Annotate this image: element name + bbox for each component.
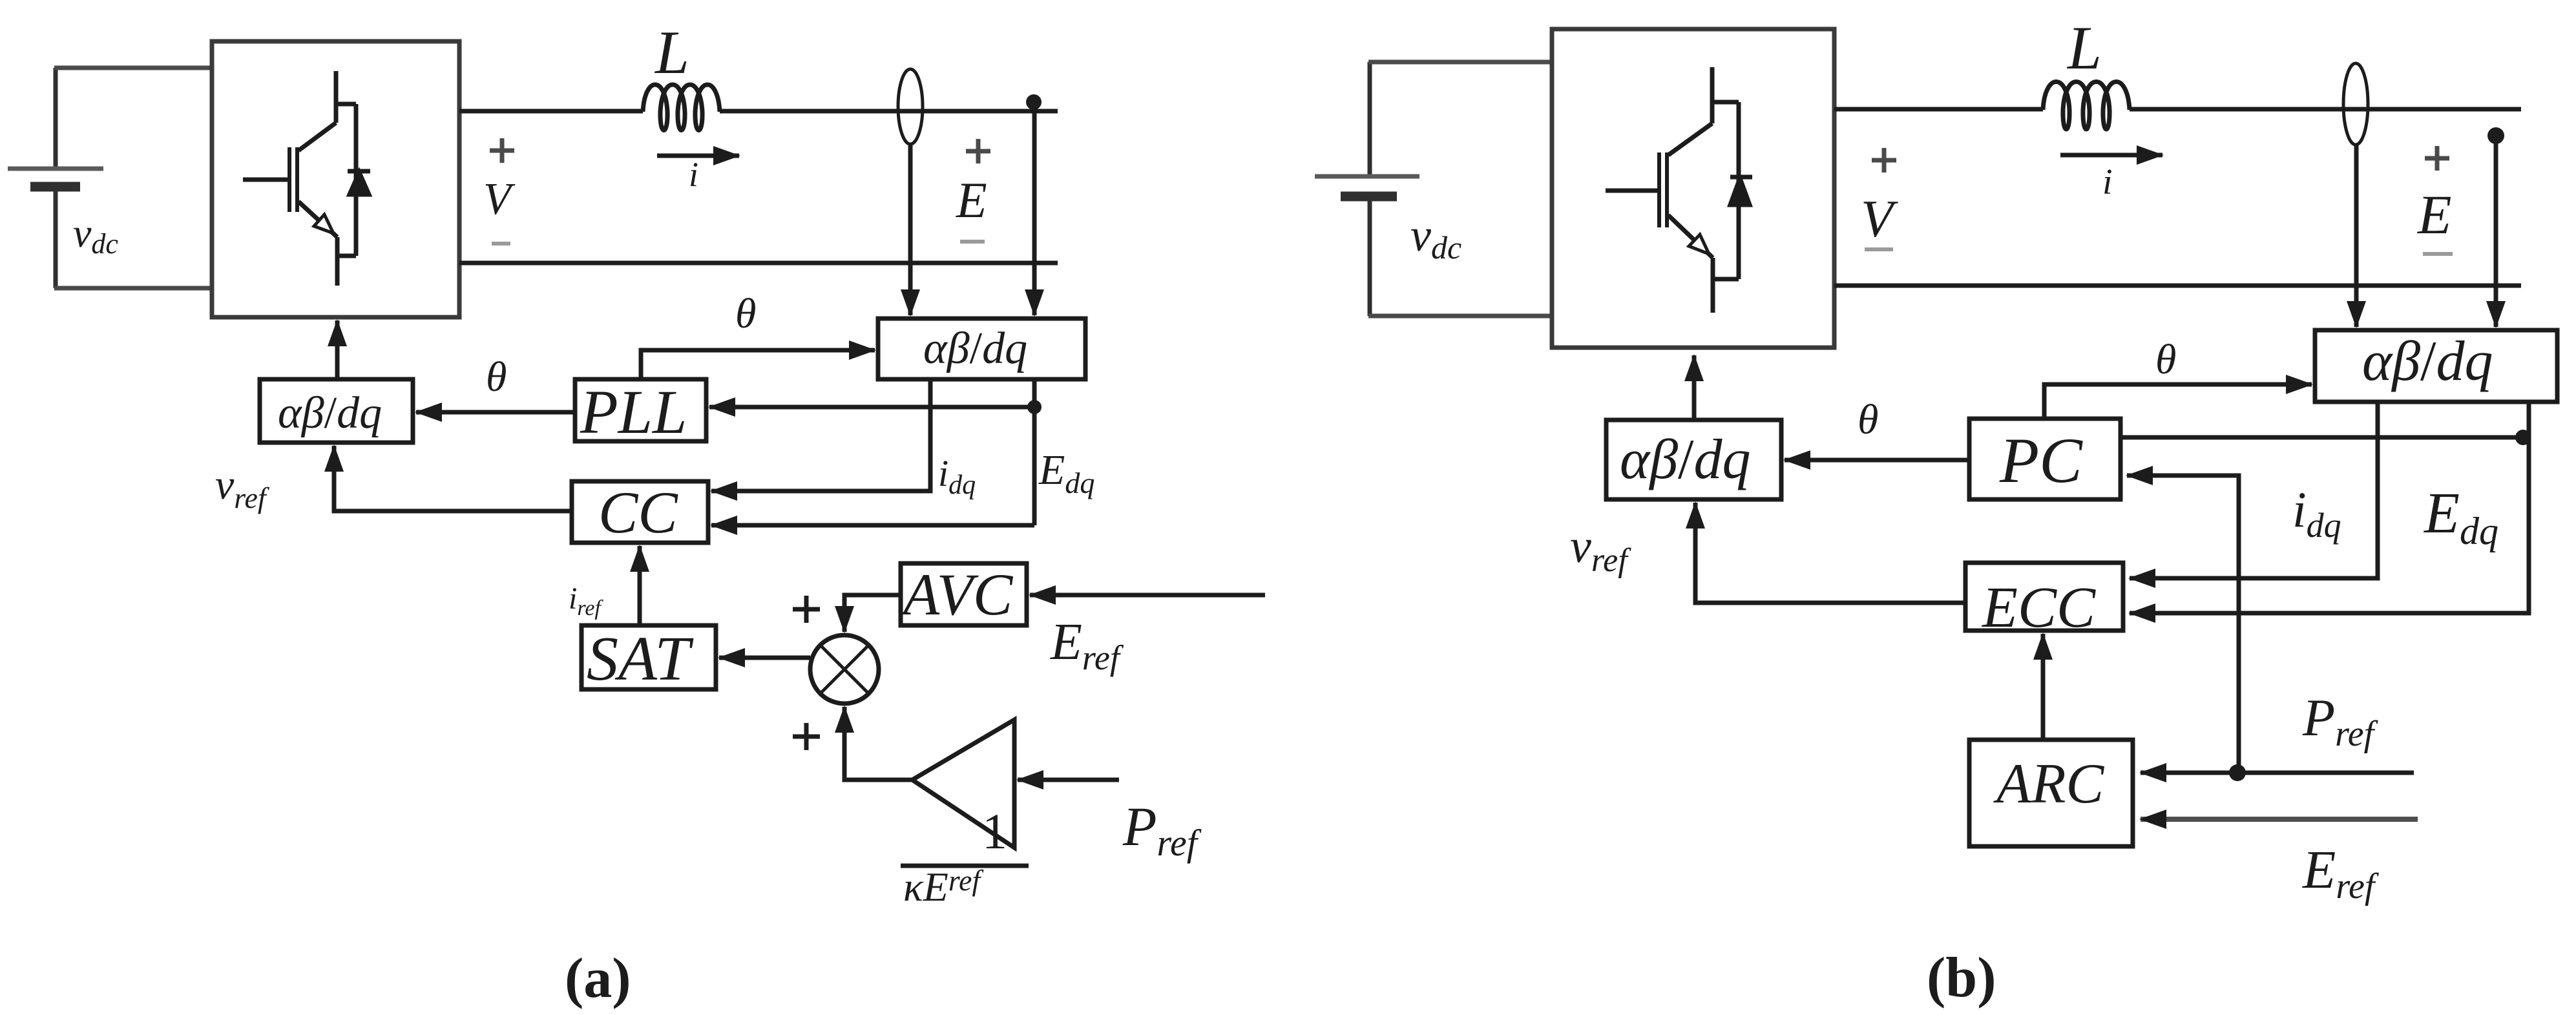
wire ARC to ECC (b) [2041,634,2046,740]
wire Edq vertical (a) [1032,379,1037,525]
wire top mid (a) [720,109,1058,114]
wire mult to SAT (a) [719,656,810,660]
sensor ellipse (b) [2343,63,2368,145]
svg-text:PC: PC [1999,424,2083,496]
block CC (a) [572,481,708,543]
current arrow i (b) [2060,153,2162,158]
block PLL (a) [575,379,706,441]
wire ac bottom (a) [459,261,1058,266]
svg-text:i: i [689,155,698,194]
block PC (b) [1969,419,2120,499]
svg-text:αβ/dq: αβ/dq [278,388,382,438]
svg-text:θ: θ [486,353,507,401]
wire dc top (b) [1368,60,1553,65]
svg-text:E: E [2416,183,2452,246]
wire ac top (a) [459,109,643,114]
block AVC (a) [901,563,1027,625]
svg-text:αβ/dq: αβ/dq [923,324,1027,373]
wire E sense right (b) [2494,136,2498,327]
block abdq right (a) [878,319,1085,379]
svg-text:L: L [654,18,689,87]
svg-text:V: V [483,174,516,224]
multiplier circle (a) [810,635,879,704]
wire abdq to converter (a) [335,320,340,379]
svg-text:αβ/dq: αβ/dq [1620,428,1750,491]
block ECC (b) [1965,563,2123,631]
wire Pref to PC (b) [2127,476,2239,773]
wire AVC out (a) [844,595,901,632]
diode D1 (a) [348,171,370,194]
svg-text:i: i [2102,162,2113,202]
current arrow i (a) [657,154,739,158]
inductor L (b) [2043,82,2130,130]
wire theta to abdq (b) [2044,384,2312,419]
svg-text:θ: θ [1858,396,1878,443]
node dot PLL tap (a) [1027,400,1042,414]
svg-text:ARC: ARC [1993,753,2105,815]
label plus V (b) [1872,148,1896,173]
node dot PC line (b) [2515,430,2531,445]
wire Pref in (b) [2141,771,2414,775]
converter box U2 (b) [1552,29,1834,348]
svg-text:AVC: AVC [899,561,1014,627]
wire vref up (a) [334,446,572,511]
wire idq vertical (b) [2130,402,2378,578]
wire E sense left (b) [2354,145,2359,327]
svg-text:E: E [956,172,987,228]
wire PC to abdq left (b) [1785,458,1969,463]
wire iref (a) [638,546,642,625]
node dot Pref (b) [2229,764,2246,781]
node dot (a) [1026,94,1042,110]
FIGURE_A_END [1315,29,2557,846]
svg-text:L: L [2066,14,2102,82]
wire Edq vertical (b) [2130,402,2529,613]
wire PLL to abdq left (a) [416,410,575,415]
wire Pref in (a) [1018,778,1119,782]
converter box U1 (a) [212,41,459,317]
transistor Q1 IGBT (a) [243,71,356,286]
wire dc top (a) [54,66,213,70]
wire PC out right (b) [2120,435,2529,440]
wire abdq to converter (b) [1692,355,1697,420]
wire vref up (b) [1695,503,1964,603]
wire to PLL (a) [709,405,1034,410]
svg-text:1: 1 [982,803,1007,859]
inductor L (a) [643,85,720,131]
wire theta to abdq (a) [641,350,875,379]
label plus E (b) [2425,146,2449,171]
wire Eref in (b) [2141,817,2418,822]
wire gain to mult (a) [844,707,912,780]
wire dc bottom (a) [54,286,213,291]
svg-text:SAT: SAT [587,624,694,694]
wire Eref in (a) [1030,593,1265,598]
fraction bar (a) [901,864,1029,868]
svg-text:V: V [1861,189,1898,248]
battery Vdc (b) [1315,62,1419,316]
label plus top (a) [793,596,820,623]
wire dc bottom (b) [1368,314,1553,319]
sensor ellipse (a) [898,69,923,144]
svg-text:ECC: ECC [1981,576,2096,640]
label plus bottom (a) [793,723,820,750]
wire ac bottom (b) [1834,284,2521,288]
diode D2 (b) [1730,177,1752,205]
svg-text:αβ/dq: αβ/dq [2362,330,2493,393]
block SAT (a) [581,625,716,689]
wire E sense left (a) [908,144,913,315]
wire Edq to CC (a) [711,523,1034,528]
label plus V (a) [490,138,514,163]
block abdq left (b) [1606,420,1781,499]
wire E sense right (a) [1032,102,1037,315]
label plus E (a) [966,139,990,163]
svg-text:CC: CC [598,479,678,545]
label minus E (a) [960,240,985,244]
wire top mid (b) [2130,107,2521,112]
transistor Q2 IGBT (b) [1606,67,1739,313]
node dot (b) [2487,127,2504,144]
svg-text:(a): (a) [565,947,631,1010]
block abdq left (a) [260,379,413,443]
label minus E (b) [2423,252,2453,256]
wire ac top (b) [1834,107,2043,112]
block abdq right (b) [2315,330,2557,402]
svg-text:θ: θ [2155,336,2176,383]
label minus V (b) [1865,247,1893,251]
svg-text:PLL: PLL [580,377,687,446]
svg-text:θ: θ [735,290,756,337]
label minus V (a) [492,242,510,246]
battery Vdc (a) [8,68,103,288]
gain triangle (a) [912,720,1014,848]
wire idq vertical (a) [711,379,930,491]
block ARC (b) [1969,740,2133,846]
svg-text:(b): (b) [1927,947,1996,1009]
